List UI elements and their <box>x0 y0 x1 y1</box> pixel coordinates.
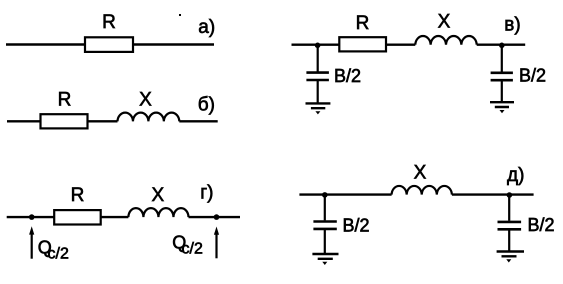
svg-text:X: X <box>151 185 164 206</box>
node junction right of circuit d <box>507 192 513 198</box>
wire <box>7 120 218 122</box>
wire <box>299 193 533 195</box>
svg-text:д): д) <box>507 165 524 186</box>
svg-text:с/2: с/2 <box>182 241 203 258</box>
capacitor C2 (right B/2) <box>491 45 513 101</box>
ground <box>306 103 331 114</box>
current arrow right Qc/2 <box>214 227 219 259</box>
resistor R4 <box>54 210 100 224</box>
inductor L3 <box>415 36 476 45</box>
resistor R2 <box>41 114 88 128</box>
svg-text:R: R <box>71 185 85 206</box>
label Qc/2 right <box>172 232 203 257</box>
current arrow left Qc/2 <box>29 226 34 258</box>
inductor L5 <box>392 186 452 195</box>
wire <box>6 43 214 45</box>
svg-text:X: X <box>438 12 451 33</box>
svg-text:X: X <box>414 163 427 184</box>
node junction left of circuit g <box>29 214 35 220</box>
svg-text:R: R <box>102 12 116 33</box>
inductor L2 <box>118 113 180 122</box>
svg-text:г): г) <box>200 182 213 203</box>
svg-text:б): б) <box>198 95 215 116</box>
wire <box>7 216 240 218</box>
node junction right of circuit v <box>499 43 505 49</box>
svg-text:R: R <box>356 13 370 34</box>
svg-text:с/2: с/2 <box>48 246 69 263</box>
capacitor C1 (left B/2) <box>306 45 329 103</box>
resistor R3 <box>339 37 386 51</box>
node junction left of circuit d <box>322 192 328 198</box>
svg-text:X: X <box>139 89 152 110</box>
svg-text:R: R <box>58 90 72 111</box>
capacitor C4 (right B/2) <box>498 195 522 251</box>
ground <box>312 254 338 265</box>
svg-text:В/2: В/2 <box>528 215 555 235</box>
inductor L4 <box>128 208 188 217</box>
node junction right of circuit g <box>214 214 220 220</box>
ground <box>490 102 514 113</box>
wire <box>292 44 526 46</box>
label Qc/2 left <box>38 238 69 263</box>
capacitor C3 (left B/2) <box>313 195 336 253</box>
svg-text:а): а) <box>198 17 215 38</box>
svg-text:В/2: В/2 <box>519 66 546 86</box>
resistor R1 <box>85 37 133 52</box>
svg-text:В/2: В/2 <box>334 66 361 86</box>
ground <box>497 252 524 263</box>
svg-text:В/2: В/2 <box>343 216 370 236</box>
stray dot <box>179 14 181 16</box>
node junction left of circuit v <box>315 43 321 49</box>
svg-text:в): в) <box>504 14 520 35</box>
